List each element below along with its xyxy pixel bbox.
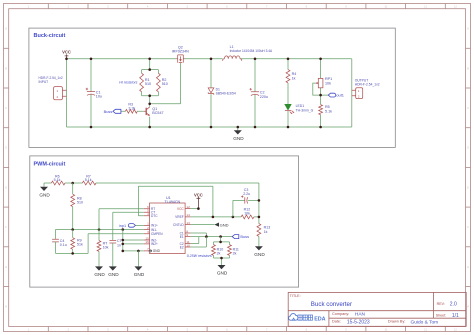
ground flag GND at pin 13 CNTLD (191, 222, 229, 227)
svg-text:Company:: Company: (332, 312, 349, 316)
junction dots IN1- row (71, 228, 124, 231)
svg-text:10k: 10k (244, 211, 250, 215)
transistor Q2 IRF9Z34N (P-MOSFET) (172, 46, 189, 64)
diode D1 SB540-E3/54 (208, 88, 236, 96)
svg-text:BC547: BC547 (152, 111, 163, 115)
net flag inp1 (119, 224, 144, 228)
Buck-circuit section box (29, 28, 395, 147)
svg-text:Date:: Date: (332, 320, 341, 324)
wire: Q2 gate run (150, 63, 181, 103)
wire: right rail (R7 row down to R13) (258, 183, 260, 224)
resistor R2 510 (157, 73, 168, 92)
svg-text:2.2u: 2.2u (243, 192, 250, 196)
connector P1 HDR-F-2.54_1x2 INPUT (39, 76, 67, 100)
ground GND (R13) (254, 236, 265, 256)
svg-text:GND: GND (153, 249, 161, 253)
svg-text:E2: E2 (180, 245, 184, 249)
svg-text:VREF: VREF (175, 215, 184, 219)
svg-text:E1: E1 (180, 235, 184, 239)
svg-text:2.0: 2.0 (450, 302, 457, 308)
connector P2 HDR-F-2.54_1x2 OUTPUT (352, 79, 380, 99)
resistor R13 1k (257, 224, 270, 237)
svg-text:CMPEN: CMPEN (151, 232, 163, 236)
svg-text:HI resistors: HI resistors (119, 80, 137, 84)
wire: bottom rail (67, 126, 352, 128)
svg-text:0.25W resistors: 0.25W resistors (187, 254, 212, 258)
transistor Q1 BC547 (144, 107, 164, 116)
svg-text:4: 4 (147, 212, 149, 216)
svg-text:9: 9 (186, 233, 188, 237)
svg-text:1: 1 (358, 89, 360, 93)
resistor R5 5.1k (319, 105, 332, 115)
svg-text:10k: 10k (325, 81, 331, 85)
title block (288, 292, 466, 326)
svg-text:VCC: VCC (194, 192, 203, 197)
resistor RT 10k (97, 241, 108, 252)
svg-text:C: C (5, 106, 7, 110)
wire: RP1 wiper to out1 node (313, 83, 329, 95)
svg-text:inp1: inp1 (119, 224, 126, 228)
svg-text:Buss: Buss (240, 234, 249, 239)
resistor R8 510 (71, 194, 83, 206)
inductor L1 Inductor 1410454 100uH 3.4A (223, 45, 273, 61)
wire: divider drop to R8 (72, 183, 74, 194)
net flag Buss (buck) (104, 109, 121, 114)
wire: D1 branch (210, 59, 212, 127)
net flag out1 (328, 93, 344, 98)
svg-text:B: B (467, 66, 469, 70)
svg-text:IRF9Z34N: IRF9Z34N (172, 50, 189, 54)
svg-text:GND: GND (220, 222, 229, 227)
svg-text:1k: 1k (264, 230, 268, 234)
wire: C2 pin 11 tie (191, 237, 199, 244)
logo JLC EDA (289, 314, 298, 321)
svg-text:5.1k: 5.1k (54, 178, 61, 182)
wire: VCC pin 12 (191, 207, 200, 210)
wire: C1 pin 8 tie (191, 233, 207, 237)
wire: VREF row pin 14 (191, 216, 259, 218)
power flag VCC (buck) (62, 49, 71, 58)
junction dots R1R2/gate/out1 (148, 68, 322, 105)
ground GND (RT) (94, 251, 105, 277)
junction dots top rail (65, 58, 322, 61)
svg-text:GND: GND (134, 272, 145, 277)
svg-text:EDA: EDA (314, 316, 325, 322)
wire: E1/Buss row (191, 236, 232, 238)
wire: top rail L1 to output (240, 58, 351, 60)
U1 right pin stubs (185, 209, 191, 247)
LED LED1 TH-3mm_G (285, 104, 314, 114)
svg-text:3: 3 (147, 230, 149, 234)
resistor R6 5.1k (51, 174, 65, 185)
svg-text:PWM-circuit: PWM-circuit (34, 161, 66, 167)
ground GND (U1 pin 7) (134, 250, 145, 277)
svg-text:Buss: Buss (104, 109, 113, 114)
svg-text:H: H (467, 305, 469, 309)
svg-text:TITLE:: TITLE: (290, 294, 301, 298)
svg-text:2: 2 (358, 94, 360, 98)
svg-text:10: 10 (186, 243, 190, 247)
svg-text:Inductor 1410454 100uH 3.4A: Inductor 1410454 100uH 3.4A (230, 49, 273, 53)
svg-text:5.1k: 5.1k (85, 178, 92, 182)
op-amp/PWM IC U1 TL494CN (150, 196, 186, 253)
wire: top rail Q2 to L1 (185, 58, 223, 60)
svg-text:REV:: REV: (437, 302, 445, 306)
ground GND (R10/R11) (217, 265, 228, 276)
svg-text:A: A (5, 27, 7, 31)
capacitor CT 1n (109, 239, 122, 247)
svg-text:H: H (5, 305, 7, 309)
capacitor C3 2.2u (233, 188, 259, 217)
wire: DTC to VREF loop (138, 186, 213, 217)
svg-text:Guido & Tom: Guido & Tom (411, 319, 439, 325)
svg-text:2k: 2k (233, 252, 237, 256)
svg-text:VCC: VCC (177, 207, 184, 211)
svg-text:out1: out1 (336, 93, 344, 98)
svg-text:5.1k: 5.1k (325, 109, 332, 113)
svg-text:1k: 1k (292, 76, 296, 80)
wire: R10/R11 bottom tie (214, 258, 230, 265)
resistor R12 10k (241, 208, 254, 219)
wire: C2 branch (254, 59, 256, 127)
svg-text:R1: R1 (145, 78, 150, 82)
wire: CT pin run (113, 212, 144, 240)
svg-text:SB540-E3/54: SB540-E3/54 (216, 92, 236, 96)
svg-text:A: A (467, 27, 469, 31)
svg-text:14: 14 (186, 213, 190, 217)
capacitor C1 10u (86, 88, 102, 99)
resistor R4 1k (286, 70, 296, 83)
PWM-circuit section box (30, 156, 299, 287)
svg-text:Buck-circuit: Buck-circuit (34, 33, 66, 39)
capacitor C4 0.1u (52, 239, 67, 247)
svg-text:TH-3mm_G: TH-3mm_G (296, 108, 314, 112)
U1 left pin names (148, 207, 163, 253)
svg-text:220u: 220u (260, 95, 268, 99)
svg-text:10u: 10u (96, 95, 102, 99)
resistor R10 2k (212, 242, 224, 258)
ground GND (top-left PWM) (39, 183, 50, 197)
svg-text:IN2+: IN2+ (151, 242, 158, 246)
wire: R6-R7 row (44, 182, 259, 184)
U1 right pin names (173, 207, 184, 249)
svg-text:Buck converter: Buck converter (311, 301, 352, 308)
resistor R9 51k (71, 230, 83, 254)
resistor R7 5.1k (82, 174, 96, 185)
net flag Buss (PWM) (232, 234, 249, 239)
svg-text:GND: GND (254, 252, 265, 257)
wire: R1/R2 parallel loop (142, 59, 159, 104)
svg-text:3.3k: 3.3k (128, 107, 135, 111)
wire: top rail left (VCC to Q2) (67, 58, 177, 60)
wire: input left vertical (66, 59, 68, 127)
ground GND (CT) (108, 243, 119, 277)
capacitor C2 220u (250, 88, 269, 99)
svg-text:GND: GND (217, 271, 228, 276)
wire: output right vertical (351, 59, 353, 127)
wire: RP1/R5 branch (320, 59, 322, 127)
svg-text:INPUT: INPUT (39, 80, 49, 84)
svg-text:CNTLD: CNTLD (173, 223, 184, 227)
svg-text:510: 510 (77, 201, 83, 205)
power flag VCC (PWM) (194, 192, 203, 208)
wire: Q1 collector/emitter (149, 104, 151, 127)
svg-text:GND: GND (108, 272, 119, 277)
wire: IN1- feedback row (56, 230, 144, 239)
wire: IN2-/IN2+/GND pin runs and left tie vertical (123, 230, 144, 251)
svg-text:D: D (5, 146, 7, 150)
potentiometer RP1 10k (316, 77, 332, 88)
svg-text:51k: 51k (77, 243, 83, 247)
U1 right pin numbers (186, 205, 190, 247)
svg-text:HAN: HAN (355, 311, 366, 317)
svg-text:GND: GND (39, 192, 50, 197)
wire: feedback bottom run to CMPEN (56, 234, 144, 254)
wire: C1 branch (90, 59, 92, 127)
resistor R1 510 (140, 73, 151, 92)
svg-text:DTC: DTC (151, 214, 158, 218)
wire: R8 to IN1- node (72, 207, 74, 230)
svg-text:15-5-2023: 15-5-2023 (347, 319, 370, 325)
U1 left pin numbers (145, 205, 149, 251)
junction R6/R7 (71, 182, 74, 185)
junction R9 bottom (71, 252, 74, 255)
svg-text:Drawn By:: Drawn By: (388, 320, 406, 324)
svg-text:1n: 1n (117, 243, 121, 247)
wire: base wire Buss flag to R3 to Q1 (121, 110, 144, 112)
svg-text:1/1: 1/1 (452, 313, 459, 319)
wire: C4 bottom (55, 242, 57, 254)
svg-text:GND: GND (94, 272, 105, 277)
svg-text:10k: 10k (103, 246, 109, 250)
svg-text:E: E (5, 185, 7, 189)
svg-text:13: 13 (186, 221, 190, 225)
wire: RT pin run (99, 209, 144, 241)
svg-text:510: 510 (162, 82, 168, 86)
wire: E2 pin 10 tie (191, 237, 207, 247)
svg-text:Sheet:: Sheet: (436, 314, 446, 318)
svg-text:TL494CN: TL494CN (164, 200, 180, 204)
svg-text:VCC: VCC (62, 49, 71, 54)
ground GND (buck) (233, 130, 244, 141)
title block texts (290, 294, 459, 325)
svg-text:510: 510 (145, 82, 151, 86)
svg-text:16: 16 (145, 240, 149, 244)
svg-text:2k: 2k (217, 252, 221, 256)
junction dots bottom rail (90, 126, 322, 129)
svg-text:12: 12 (186, 205, 190, 209)
svg-text:B: B (5, 66, 7, 70)
resistor R3 3.3k (125, 103, 137, 114)
svg-text:G: G (5, 265, 7, 269)
svg-text:C: C (467, 106, 469, 110)
svg-text:E: E (467, 185, 469, 189)
svg-text:HDR-F-2.54_1x2: HDR-F-2.54_1x2 (355, 83, 380, 87)
svg-text:GND: GND (233, 136, 244, 141)
resistor R11 2k (228, 242, 239, 258)
wire: GND stub (buck) (237, 127, 239, 130)
svg-text:0.1u: 0.1u (60, 243, 67, 247)
U1 left pin stubs (144, 209, 150, 251)
svg-text:D: D (467, 146, 469, 150)
wire: drop to R10/R11 (214, 237, 230, 242)
wire: R4/LED1 branch (287, 59, 289, 127)
svg-text:G: G (467, 265, 469, 269)
svg-text:R2: R2 (162, 78, 167, 82)
